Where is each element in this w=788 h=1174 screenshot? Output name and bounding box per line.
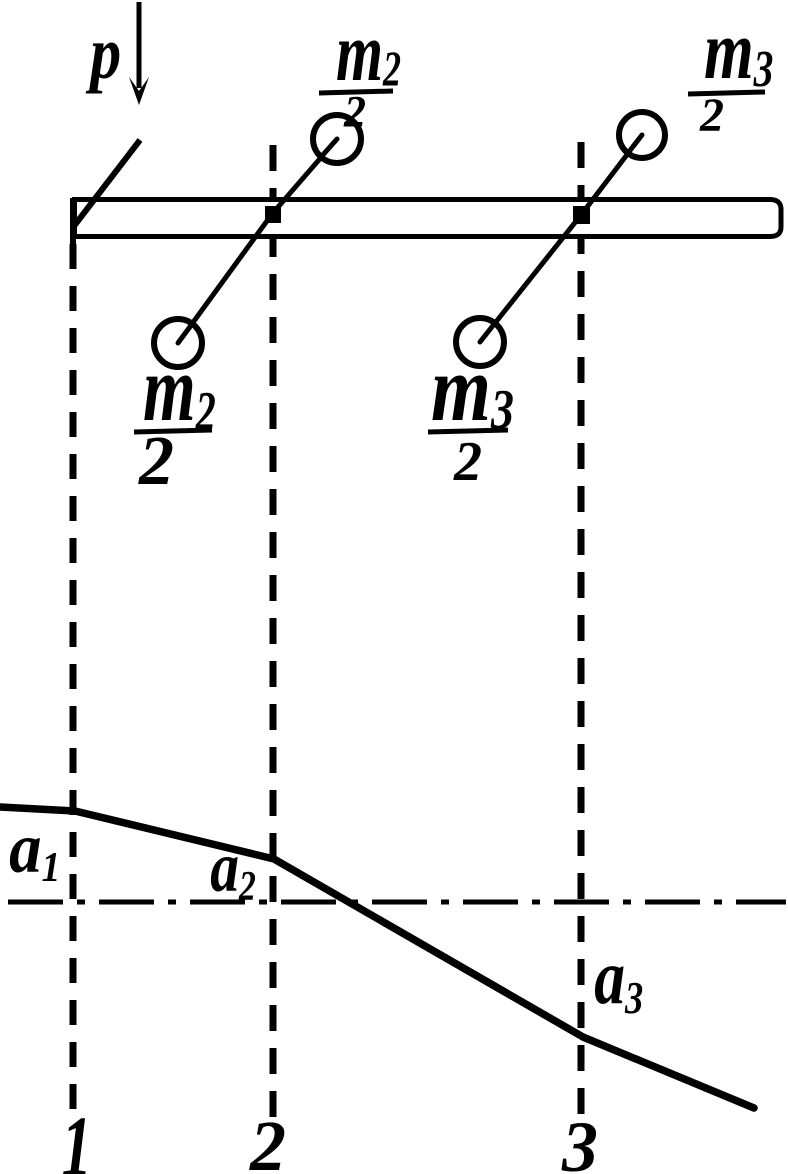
- rotor 3 rod: [480, 135, 642, 342]
- svg-text:2: 2: [138, 423, 174, 500]
- fraction bar (m2 bottom): [134, 430, 212, 432]
- beam left end tick: [70, 198, 76, 256]
- rotor 3 lower mass circle: [456, 318, 504, 366]
- node 1 dashed line: [70, 244, 77, 1117]
- label m3/2 bottom: [428, 336, 514, 493]
- equilibrium dash-dot axis: [8, 900, 786, 905]
- force P arrowhead: [129, 77, 149, 105]
- svg-text:m2: m2: [336, 5, 401, 98]
- svg-text:m3: m3: [704, 5, 773, 97]
- fraction bar (m3 top): [688, 92, 765, 94]
- svg-text:2: 2: [453, 431, 482, 493]
- node 2 pivot dot: [265, 206, 281, 223]
- svg-text:3: 3: [561, 1107, 598, 1174]
- rotor 2 lower stub: [178, 324, 192, 343]
- fraction bar (m3 bottom): [428, 430, 508, 432]
- node 2 dashed line: [270, 145, 277, 1120]
- rotor 3 upper mass circle: [619, 112, 665, 158]
- support slash at left end: [74, 140, 140, 226]
- node 3 pivot dot: [573, 206, 590, 224]
- svg-text:2: 2: [699, 89, 724, 142]
- label m2/2 bottom: [134, 336, 216, 500]
- label m3/2 top: [688, 5, 773, 142]
- force P arrow shaft: [137, 2, 142, 88]
- rotor 2 upper stub: [321, 139, 337, 157]
- svg-text:p: p: [86, 11, 122, 93]
- rotor 3 upper stub: [628, 135, 642, 153]
- beam (shaft bar): [75, 200, 782, 237]
- svg-text:2: 2: [343, 87, 366, 136]
- rotor 2 rod: [178, 139, 337, 343]
- svg-text:1: 1: [62, 1100, 92, 1174]
- svg-text:a2: a2: [210, 828, 256, 910]
- amplitude mode line: [0, 807, 754, 1108]
- svg-text:a3: a3: [594, 934, 643, 1023]
- svg-text:a1: a1: [9, 808, 60, 891]
- svg-text:2: 2: [249, 1106, 286, 1174]
- rotor 3 lower stub: [480, 323, 495, 342]
- fraction bar (m2 top): [319, 91, 393, 93]
- rotor 2 lower mass circle: [154, 319, 202, 367]
- rotor 2 upper mass circle: [313, 115, 361, 163]
- node 3 dashed line: [578, 142, 585, 1122]
- label m2/2 top: [319, 5, 401, 136]
